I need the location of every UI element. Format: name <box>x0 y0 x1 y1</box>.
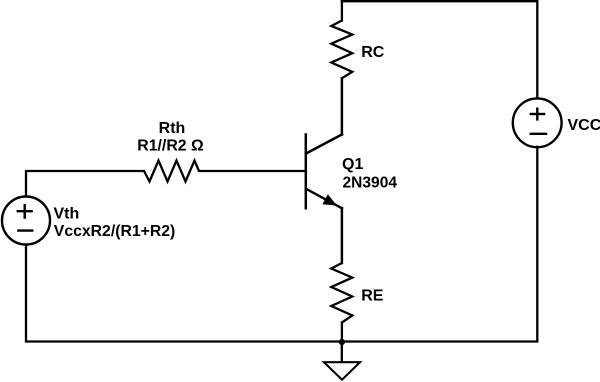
VCC circle <box>513 98 562 147</box>
Vth minus sign <box>17 229 33 231</box>
resistor RC <box>331 21 352 79</box>
Q1 emitter stroke <box>306 189 342 208</box>
wire top rail to RC <box>341 1 343 20</box>
Q1 base bar <box>305 135 308 209</box>
ground <box>324 362 360 380</box>
svg-text:VCC: VCC <box>568 117 600 134</box>
svg-text:2N3904: 2N3904 <box>343 175 398 192</box>
svg-text:Rth: Rth <box>159 120 186 137</box>
svg-text:RC: RC <box>361 44 385 61</box>
wire top rail and right rail upper <box>342 1 537 98</box>
wire collector to RC <box>341 78 344 134</box>
Vth plus sign <box>17 210 33 212</box>
junction dot <box>339 339 345 345</box>
wire emitter to RE <box>341 208 344 263</box>
voltage source VCC <box>513 98 562 147</box>
wire resistor Rth to base <box>199 170 304 172</box>
voltage source Vth <box>2 197 50 245</box>
Q1 emitter arrow <box>322 194 337 205</box>
resistor RE <box>331 263 352 323</box>
svg-text:Vth: Vth <box>54 205 80 222</box>
Vth circle <box>2 197 50 245</box>
VCC plus sign <box>530 113 546 115</box>
VCC minus sign <box>530 133 548 135</box>
Q1 collector stroke <box>306 135 342 154</box>
svg-text:RE: RE <box>361 288 384 305</box>
wire right rail lower, bottom rail, left rail <box>26 147 537 342</box>
wire RE to bottom rail <box>341 323 343 343</box>
wire to ground symbol <box>341 342 343 362</box>
wire Vth top to base corner then right to Rth <box>26 171 144 196</box>
svg-text:R1//R2 Ω: R1//R2 Ω <box>137 137 204 154</box>
svg-text:VccxR2/(R1+R2): VccxR2/(R1+R2) <box>54 223 176 240</box>
svg-text:Q1: Q1 <box>342 156 363 173</box>
transistor Q1 <box>306 78 342 263</box>
resistor Rth <box>144 161 199 182</box>
